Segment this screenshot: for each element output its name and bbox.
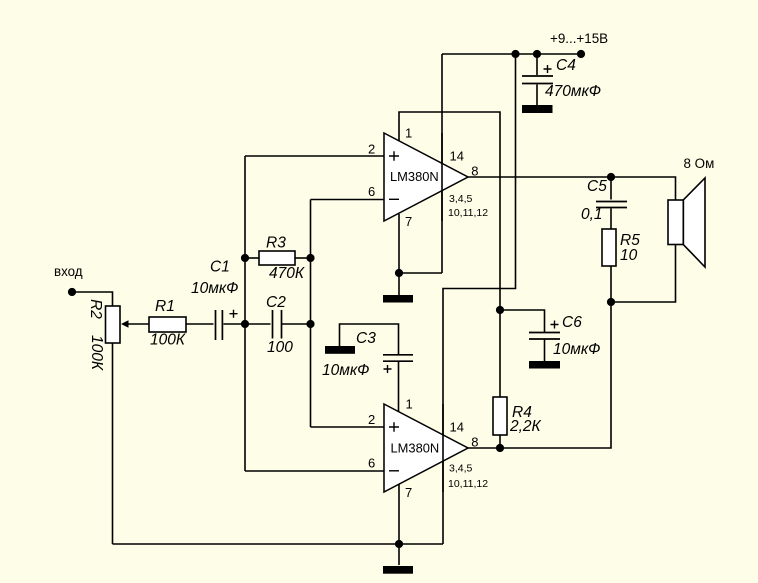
node C6 tap <box>496 306 504 314</box>
wire bus A to U2 pin6 <box>245 470 384 472</box>
svg-text:C2: C2 <box>266 294 286 311</box>
op-amp U1 LM380N <box>384 133 468 221</box>
resistor R5 <box>602 229 616 266</box>
wire U1 pin1 bracket <box>399 112 500 397</box>
wire R2 bottom to ground rail <box>112 343 114 544</box>
node input terminal <box>68 288 76 296</box>
ground at U1 pin7 <box>383 295 413 303</box>
svg-text:14: 14 <box>450 420 464 435</box>
svg-text:8 Ом: 8 Ом <box>684 156 715 171</box>
wire C4 branch <box>536 54 538 106</box>
svg-text:470мкФ: 470мкФ <box>545 83 601 100</box>
wire C6 branch <box>500 310 545 332</box>
wire input terminal to R2 top <box>72 292 113 306</box>
capacitor C5 <box>596 202 627 208</box>
svg-text:C6: C6 <box>562 314 582 331</box>
wire U1 pin6 to bus B <box>311 199 385 201</box>
capacitor C2 <box>273 310 282 339</box>
svg-text:470К: 470К <box>269 265 305 282</box>
resistor R3 <box>259 251 295 265</box>
wire bottom ground rail <box>113 543 444 545</box>
wire bus B vertical <box>310 200 312 428</box>
node bottom loop <box>607 298 615 306</box>
wire C5 to R5 chain <box>610 177 612 302</box>
C3 polarity plus <box>384 365 392 373</box>
node C1-C2 <box>241 320 249 328</box>
wire bus A vertical <box>244 156 246 471</box>
ground at C6 <box>529 361 560 369</box>
wire C2 to node D <box>282 323 311 325</box>
svg-text:10,11,12: 10,11,12 <box>448 207 488 219</box>
wire arrow to R1 <box>127 323 149 325</box>
resistor R4 <box>493 397 507 435</box>
svg-text:10,11,12: 10,11,12 <box>448 478 488 490</box>
wire Vcc bus down through U1 to pin7 node <box>399 54 442 273</box>
wire C6 to ground <box>544 340 546 362</box>
wire U1 output row to speaker top <box>468 177 676 200</box>
svg-text:100К: 100К <box>88 335 105 371</box>
svg-text:8: 8 <box>471 164 478 179</box>
node U1 pin7 <box>395 269 403 277</box>
C6 polarity plus <box>551 321 559 329</box>
svg-text:2,2К: 2,2К <box>509 418 542 435</box>
svg-text:6: 6 <box>368 456 375 471</box>
wire C3 bracket <box>340 324 399 413</box>
capacitor C3 <box>383 355 413 361</box>
node C5 top <box>607 173 615 181</box>
svg-text:10мкФ: 10мкФ <box>553 341 601 358</box>
node rail terminal <box>577 50 585 58</box>
svg-text:10мкФ: 10мкФ <box>191 280 239 297</box>
resistor R1 <box>149 317 186 332</box>
U2 minus input marker <box>389 470 399 472</box>
wire Vcc bus through U2 <box>442 404 444 492</box>
svg-text:7: 7 <box>405 214 412 229</box>
svg-text:100: 100 <box>267 339 293 356</box>
wire Vcc bus through U1 <box>441 133 443 221</box>
svg-text:вход: вход <box>54 264 83 279</box>
svg-text:14: 14 <box>450 148 464 163</box>
capacitor C1 <box>216 310 223 340</box>
U1 minus input marker <box>389 198 399 200</box>
wire U2 pin7 <box>398 484 400 566</box>
node U2 output <box>496 444 504 452</box>
node rail junction 2 <box>533 50 541 58</box>
ground at U2 pin7 <box>383 566 413 574</box>
svg-text:1: 1 <box>406 397 413 412</box>
svg-text:C1: C1 <box>210 259 230 276</box>
wire U1 pin7 <box>398 214 400 295</box>
U1 plus input marker <box>389 151 399 160</box>
svg-text:0,1: 0,1 <box>581 206 603 223</box>
wire speaker bottom loop <box>611 245 676 303</box>
svg-text:10: 10 <box>620 247 638 264</box>
ground at C4 <box>522 105 553 113</box>
op-amp U2 LM380N <box>384 404 468 492</box>
node C2 right <box>306 320 314 328</box>
svg-text:100К: 100К <box>150 332 186 349</box>
resistor R2 potentiometer <box>106 306 121 343</box>
svg-text:LM380N: LM380N <box>391 441 440 456</box>
svg-text:6: 6 <box>368 184 375 199</box>
ground at C3 <box>325 346 355 354</box>
capacitor C4 <box>522 76 553 84</box>
wire bus B to U2 pin2 <box>311 426 385 428</box>
svg-text:10мкФ: 10мкФ <box>322 362 370 379</box>
svg-text:R1: R1 <box>155 298 175 315</box>
svg-text:R2: R2 <box>87 299 104 319</box>
svg-text:1: 1 <box>405 126 412 141</box>
wire rail to right bus <box>443 54 516 544</box>
resistor R2 wiper arrow <box>121 320 129 328</box>
wire power rail +9...+15V <box>442 53 581 55</box>
wire R4 bottom to output <box>499 435 501 448</box>
C1 polarity plus <box>230 310 238 318</box>
speaker BA1 <box>668 178 705 267</box>
svg-text:C4: C4 <box>556 57 576 74</box>
C4 polarity plus <box>544 65 552 73</box>
svg-text:LM380N: LM380N <box>390 169 439 184</box>
U2 plus input marker <box>389 422 399 431</box>
wire R3 left <box>245 257 259 259</box>
capacitor C6 <box>529 333 560 340</box>
wire R3 right <box>295 257 311 259</box>
svg-text:2: 2 <box>368 142 375 157</box>
svg-text:C3: C3 <box>356 330 376 347</box>
svg-text:C5: C5 <box>587 178 607 195</box>
node rail junction 1 <box>511 50 519 58</box>
svg-text:3,4,5: 3,4,5 <box>449 193 473 205</box>
svg-text:3,4,5: 3,4,5 <box>449 463 473 475</box>
node R3 right <box>306 254 314 262</box>
wire R1 to C1 <box>186 323 214 325</box>
svg-text:7: 7 <box>405 485 412 500</box>
wire C1 to node C <box>224 323 246 325</box>
node U2 pin7 <box>395 540 403 548</box>
svg-text:2: 2 <box>368 412 375 427</box>
wire U1 pin2 to bus A <box>245 155 384 157</box>
svg-text:+9...+15В: +9...+15В <box>550 31 608 46</box>
svg-text:8: 8 <box>471 435 478 450</box>
node R3 left <box>241 254 249 262</box>
wire U2 output row <box>468 302 611 448</box>
svg-text:R3: R3 <box>266 235 286 252</box>
wire node C to C2 <box>245 323 271 325</box>
